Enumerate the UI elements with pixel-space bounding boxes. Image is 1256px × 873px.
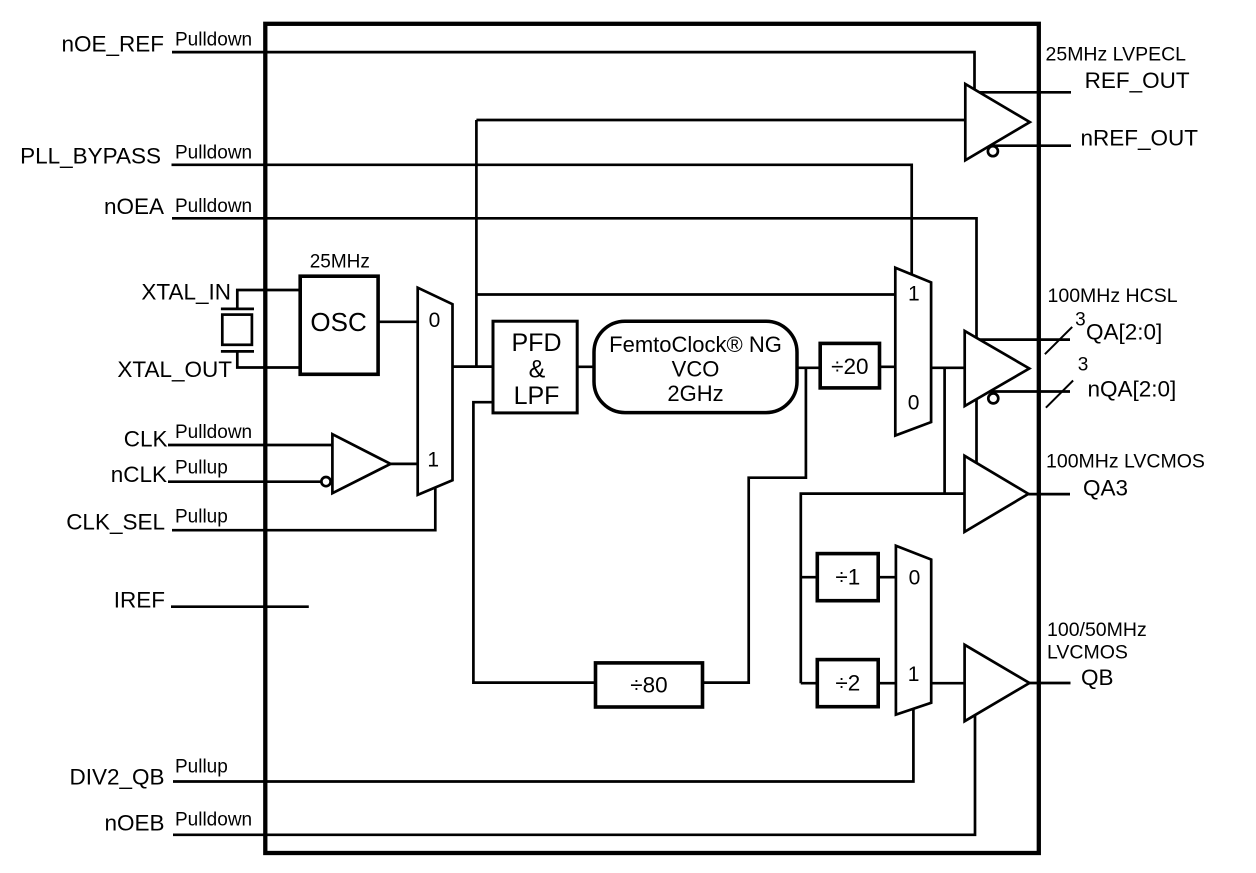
svg-text:Pulldown: Pulldown: [175, 422, 252, 443]
wire reference riser: [475, 120, 478, 367]
svg-text:DIV2_QB: DIV2_QB: [69, 765, 164, 790]
wire VCO feedback to div80: [703, 368, 806, 683]
svg-text:IREF: IREF: [114, 587, 165, 612]
wire XTAL_IN: [237, 290, 300, 308]
wire QB output: [1029, 682, 1070, 685]
svg-text:÷1: ÷1: [835, 565, 860, 590]
wire PLL bypass branch: [476, 293, 895, 296]
svg-text:1: 1: [427, 449, 439, 472]
wire PFD to VCO: [577, 365, 594, 368]
svg-text:100/50MHz: 100/50MHz: [1047, 619, 1147, 641]
svg-text:VCO: VCO: [672, 356, 720, 381]
wire OSC to mux1: [378, 320, 418, 323]
output buffer QA: [965, 331, 1030, 406]
svg-text:OSC: OSC: [310, 307, 366, 337]
svg-text:100MHz HCSL: 100MHz HCSL: [1048, 285, 1178, 307]
svg-text:PLL_BYPASS: PLL_BYPASS: [20, 144, 161, 169]
svg-text:÷80: ÷80: [630, 672, 667, 697]
svg-text:FemtoClock® NG: FemtoClock® NG: [609, 332, 782, 357]
svg-text:Pullup: Pullup: [175, 757, 228, 778]
wire div1 to mux3: [878, 576, 896, 579]
wire mux2 to QA buffer: [931, 366, 965, 369]
wire REF_OUT output: [980, 91, 1071, 94]
mux M1: [418, 288, 453, 495]
svg-text:PFD: PFD: [512, 329, 562, 357]
bubble nQA: [988, 393, 998, 403]
wire mux3 to QB buffer: [931, 682, 964, 685]
svg-text:Pullup: Pullup: [175, 506, 228, 527]
VCO block: [594, 321, 797, 412]
wire to div2: [801, 682, 818, 685]
wire nOE_REF horizontal: [172, 52, 975, 89]
wire nOEA enable segment QA to QA3: [975, 399, 978, 464]
bus slash QA: [1045, 327, 1072, 354]
svg-text:÷2: ÷2: [835, 671, 860, 696]
wire mux1 to PFD: [453, 365, 494, 368]
wire DIV2_QB select: [173, 709, 913, 782]
bus slash nQA: [1046, 381, 1073, 408]
svg-text:XTAL_OUT: XTAL_OUT: [117, 357, 232, 382]
wire to div1: [801, 576, 818, 579]
svg-text:LVCMOS: LVCMOS: [1047, 642, 1128, 664]
svg-text:nOEA: nOEA: [104, 194, 164, 219]
input buffer CLK/nCLK: [332, 434, 390, 493]
svg-text:LPF: LPF: [514, 382, 560, 410]
svg-text:&: &: [529, 356, 546, 384]
divider div80: [596, 663, 703, 707]
svg-text:nOE_REF: nOE_REF: [61, 31, 164, 56]
wire div2 to mux3: [878, 682, 896, 685]
divider div2: [817, 660, 878, 707]
svg-text:100MHz LVCMOS: 100MHz LVCMOS: [1046, 451, 1205, 473]
bubble nREF_OUT: [988, 146, 998, 156]
oscillator OSC: [300, 276, 378, 374]
svg-text:3: 3: [1078, 355, 1089, 376]
wire QA3 branch drop: [801, 368, 945, 683]
wire QA3 output: [1028, 493, 1070, 496]
crystal X1: [221, 309, 254, 352]
svg-text:nCLK: nCLK: [111, 462, 167, 487]
svg-text:REF_OUT: REF_OUT: [1085, 68, 1190, 93]
output buffer QB: [965, 645, 1030, 721]
wire CLK: [168, 444, 332, 447]
wire CLK buffer to mux1: [391, 463, 418, 466]
svg-text:Pulldown: Pulldown: [175, 810, 252, 831]
wire VCO to div20: [798, 366, 819, 369]
svg-text:CLK_SEL: CLK_SEL: [66, 510, 165, 535]
svg-text:CLK: CLK: [124, 427, 168, 452]
svg-text:nREF_OUT: nREF_OUT: [1081, 126, 1199, 151]
divider div1: [817, 554, 878, 601]
svg-text:QA[2:0]: QA[2:0]: [1086, 320, 1162, 345]
wire XTAL_OUT: [237, 351, 300, 367]
svg-text:1: 1: [908, 283, 920, 306]
mux M3: [896, 546, 931, 715]
svg-text:1: 1: [908, 663, 920, 686]
wire div20 to mux2: [879, 365, 895, 368]
wire nCLK: [168, 480, 321, 483]
PFD LPF block: [493, 321, 577, 413]
wire nOEB enable: [173, 716, 975, 835]
wire nREF_OUT output: [990, 144, 1072, 147]
wire QA output: [980, 338, 1071, 341]
output buffer QA3: [965, 456, 1029, 532]
svg-text:0: 0: [429, 309, 441, 332]
mux M2: [895, 268, 931, 436]
wire CLK_SEL select: [172, 488, 435, 531]
svg-text:QA3: QA3: [1083, 476, 1128, 501]
svg-text:3: 3: [1075, 310, 1086, 331]
svg-text:Pulldown: Pulldown: [175, 30, 252, 51]
svg-text:Pulldown: Pulldown: [175, 196, 252, 217]
wire nQA output: [990, 390, 1071, 393]
divider div20: [820, 343, 879, 388]
svg-text:0: 0: [908, 392, 920, 415]
svg-text:Pulldown: Pulldown: [175, 142, 252, 163]
wire PFD feedback from div80: [473, 402, 595, 682]
svg-text:2GHz: 2GHz: [667, 381, 723, 406]
svg-text:XTAL_IN: XTAL_IN: [141, 280, 231, 305]
svg-text:25MHz: 25MHz: [310, 252, 370, 273]
wire IREF stub: [171, 605, 309, 608]
output buffer REF_OUT: [965, 84, 1030, 160]
svg-text:nOEB: nOEB: [104, 810, 164, 835]
svg-text:÷20: ÷20: [831, 354, 868, 379]
wire QA3 feed: [945, 492, 965, 495]
chip boundary: [265, 24, 1039, 853]
svg-text:nQA[2:0]: nQA[2:0]: [1088, 377, 1177, 402]
bubble nCLK: [321, 477, 330, 486]
svg-text:QB: QB: [1081, 665, 1114, 690]
wire nOEA horizontal: [172, 218, 977, 337]
wire to REF_OUT buffer: [476, 119, 964, 122]
wire PLL_BYPASS horizontal: [172, 165, 912, 275]
svg-text:Pullup: Pullup: [175, 458, 228, 479]
svg-text:25MHz LVPECL: 25MHz LVPECL: [1046, 43, 1187, 65]
svg-text:0: 0: [909, 567, 921, 590]
